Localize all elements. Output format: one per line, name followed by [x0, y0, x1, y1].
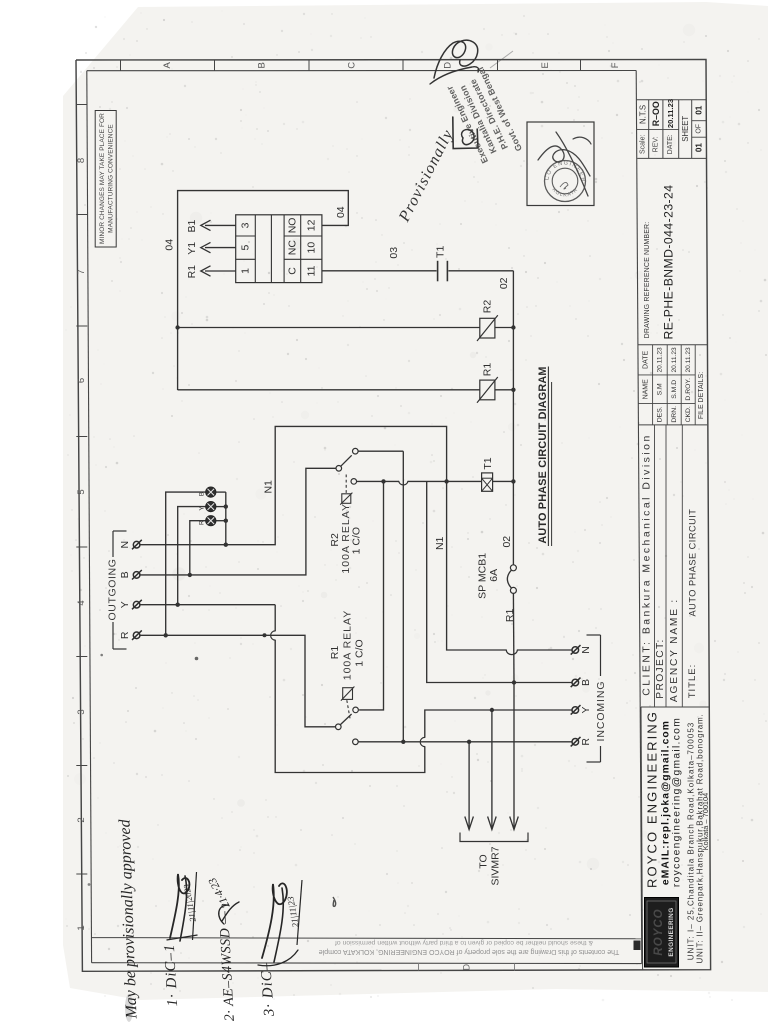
svg-text:12: 12 [305, 219, 317, 231]
svg-text:B: B [119, 571, 131, 578]
svg-text:T1: T1 [482, 457, 494, 469]
svg-text:20.11.23: 20.11.23 [671, 347, 678, 373]
svg-text:MANUFACTURING CONVENIENCE: MANUFACTURING CONVENIENCE [107, 124, 114, 233]
svg-text:03: 03 [388, 247, 400, 259]
svg-text:Y: Y [199, 507, 206, 511]
svg-text:R1: R1 [329, 646, 341, 660]
svg-text:B: B [580, 679, 592, 686]
svg-text:AUTO PHASE CIRCUIT: AUTO PHASE CIRCUIT [687, 509, 697, 617]
svg-text:01: 01 [695, 105, 704, 115]
svg-text:D.ROY.: D.ROY. [685, 378, 692, 401]
svg-text:02: 02 [498, 277, 510, 289]
svg-text:N1: N1 [434, 536, 446, 550]
svg-text:Y: Y [580, 706, 592, 713]
svg-text:N: N [580, 646, 592, 654]
svg-text:F: F [610, 62, 621, 68]
svg-text:1 C/O: 1 C/O [351, 527, 363, 554]
svg-text:AGENCY NAME :: AGENCY NAME : [669, 598, 680, 702]
svg-text:ROYCO: ROYCO [653, 908, 665, 955]
svg-text:ROYCO ENGINEERING: ROYCO ENGINEERING [644, 710, 659, 888]
svg-text:MINOR CHANGES MAY TAKE PLACE F: MINOR CHANGES MAY TAKE PLACE FOR [99, 113, 106, 244]
svg-text:NAME: NAME [642, 379, 649, 400]
svg-text:Scale:: Scale: [639, 135, 646, 155]
svg-text:D: D [443, 62, 454, 69]
svg-text:B1: B1 [186, 220, 198, 233]
svg-text:02: 02 [501, 536, 513, 548]
svg-text:20.11.23: 20.11.23 [666, 99, 675, 128]
svg-text:NC: NC [286, 240, 298, 256]
svg-text:R2: R2 [329, 533, 341, 547]
svg-text:PROJECT:: PROJECT: [655, 638, 666, 698]
svg-text:E: E [540, 62, 551, 68]
svg-text:SIVMR7: SIVMR7 [490, 846, 502, 885]
svg-text:S.M: S.M [657, 383, 664, 395]
svg-text:DES.: DES. [657, 406, 664, 422]
svg-text:R1: R1 [186, 265, 198, 279]
svg-text:T1: T1 [434, 246, 446, 258]
svg-text:TO: TO [478, 854, 490, 868]
svg-text:DRAWING REFERENCE NUMBER:: DRAWING REFERENCE NUMBER: [644, 222, 651, 339]
svg-text:04: 04 [335, 206, 347, 218]
svg-text:3: 3 [240, 222, 252, 228]
svg-text:CLIENT: Bankura Mechanical Div: CLIENT: Bankura Mechanical Division [642, 433, 653, 695]
svg-text:B: B [257, 62, 268, 68]
svg-text:5: 5 [76, 489, 87, 494]
svg-text:10: 10 [305, 242, 317, 254]
svg-text:A: A [162, 61, 173, 68]
svg-text:11: 11 [305, 265, 317, 276]
svg-text:AUTO PHASE CIRCUIT DIAGRAM: AUTO PHASE CIRCUIT DIAGRAM [537, 366, 549, 543]
svg-text:R1: R1 [481, 363, 493, 377]
svg-text:& these should neither be copi: & these should neither be copied or give… [335, 939, 593, 946]
svg-text:Kolkata – 700104: Kolkata – 700104 [701, 793, 710, 851]
svg-text:CKD.: CKD. [685, 406, 692, 422]
svg-text:04: 04 [163, 239, 175, 251]
svg-text:C: C [347, 62, 358, 69]
svg-text:DATE:: DATE: [667, 134, 674, 154]
svg-text:20.11.23: 20.11.23 [685, 347, 692, 373]
svg-text:R1: R1 [504, 609, 516, 623]
svg-text:1: 1 [240, 268, 252, 274]
svg-text:OUTGOING: OUTGOING [107, 559, 119, 621]
svg-text:6A: 6A [488, 569, 500, 582]
svg-text:3: 3 [76, 709, 87, 714]
svg-text:1· DiC–1: 1· DiC–1 [162, 943, 181, 1007]
svg-text:20.11.23: 20.11.23 [657, 347, 664, 373]
svg-text:1: 1 [76, 925, 87, 930]
svg-text:8: 8 [76, 158, 87, 163]
svg-text:R: R [199, 520, 206, 525]
svg-text:2: 2 [76, 817, 87, 822]
svg-text:Y: Y [119, 601, 131, 608]
svg-text:FILE DETAILS:: FILE DETAILS: [698, 372, 705, 419]
svg-text:6: 6 [76, 378, 87, 383]
svg-text:Y1: Y1 [186, 242, 198, 255]
svg-text:roycoengineering@gmail.com: roycoengineering@gmail.com [671, 717, 682, 887]
svg-text:N: N [119, 541, 131, 549]
svg-text:INCOMING: INCOMING [595, 681, 607, 742]
svg-text:OF: OF [696, 124, 703, 134]
svg-text:R: R [580, 738, 592, 746]
svg-text:R–OO: R–OO [651, 101, 661, 126]
svg-text:ENGINEERING: ENGINEERING [668, 907, 675, 956]
svg-text:4: 4 [76, 600, 87, 605]
svg-text:100A RELAY: 100A RELAY [342, 610, 354, 681]
svg-text:N.T.S: N.T.S [638, 105, 647, 124]
svg-text:NO: NO [286, 218, 298, 234]
svg-text:B: B [199, 492, 206, 496]
svg-text:C: C [286, 267, 298, 275]
svg-text:R2: R2 [481, 300, 493, 314]
svg-text:SHEET: SHEET [681, 116, 690, 142]
svg-text:REV:: REV: [653, 136, 660, 152]
svg-text:eMAIL:repl.joka@gmail.com: eMAIL:repl.joka@gmail.com [660, 720, 671, 885]
svg-text:The contents of this Drawing a: The contents of this Drawing are the sol… [319, 948, 620, 955]
svg-text:N1: N1 [262, 480, 274, 494]
svg-text:1 C/O: 1 C/O [353, 639, 365, 666]
svg-text:01: 01 [695, 143, 704, 153]
svg-text:S.M.D: S.M.D [671, 380, 678, 399]
svg-text:DATE: DATE [642, 350, 649, 368]
svg-text:RE-PHE-BNMD-044-23-24: RE-PHE-BNMD-044-23-24 [662, 184, 676, 339]
svg-text:SP MCB1: SP MCB1 [477, 553, 489, 599]
svg-text:TITLE:: TITLE: [687, 664, 698, 699]
svg-text:R: R [119, 631, 131, 639]
svg-text:7: 7 [76, 269, 87, 274]
svg-text:DRN.: DRN. [671, 406, 678, 423]
svg-text:5: 5 [240, 245, 252, 251]
svg-text:UNIT: I– 25,Chanditala Br: UNIT: I– 25,Chanditala Branch Road,Kolka… [686, 722, 695, 960]
svg-text:D: D [462, 963, 472, 970]
